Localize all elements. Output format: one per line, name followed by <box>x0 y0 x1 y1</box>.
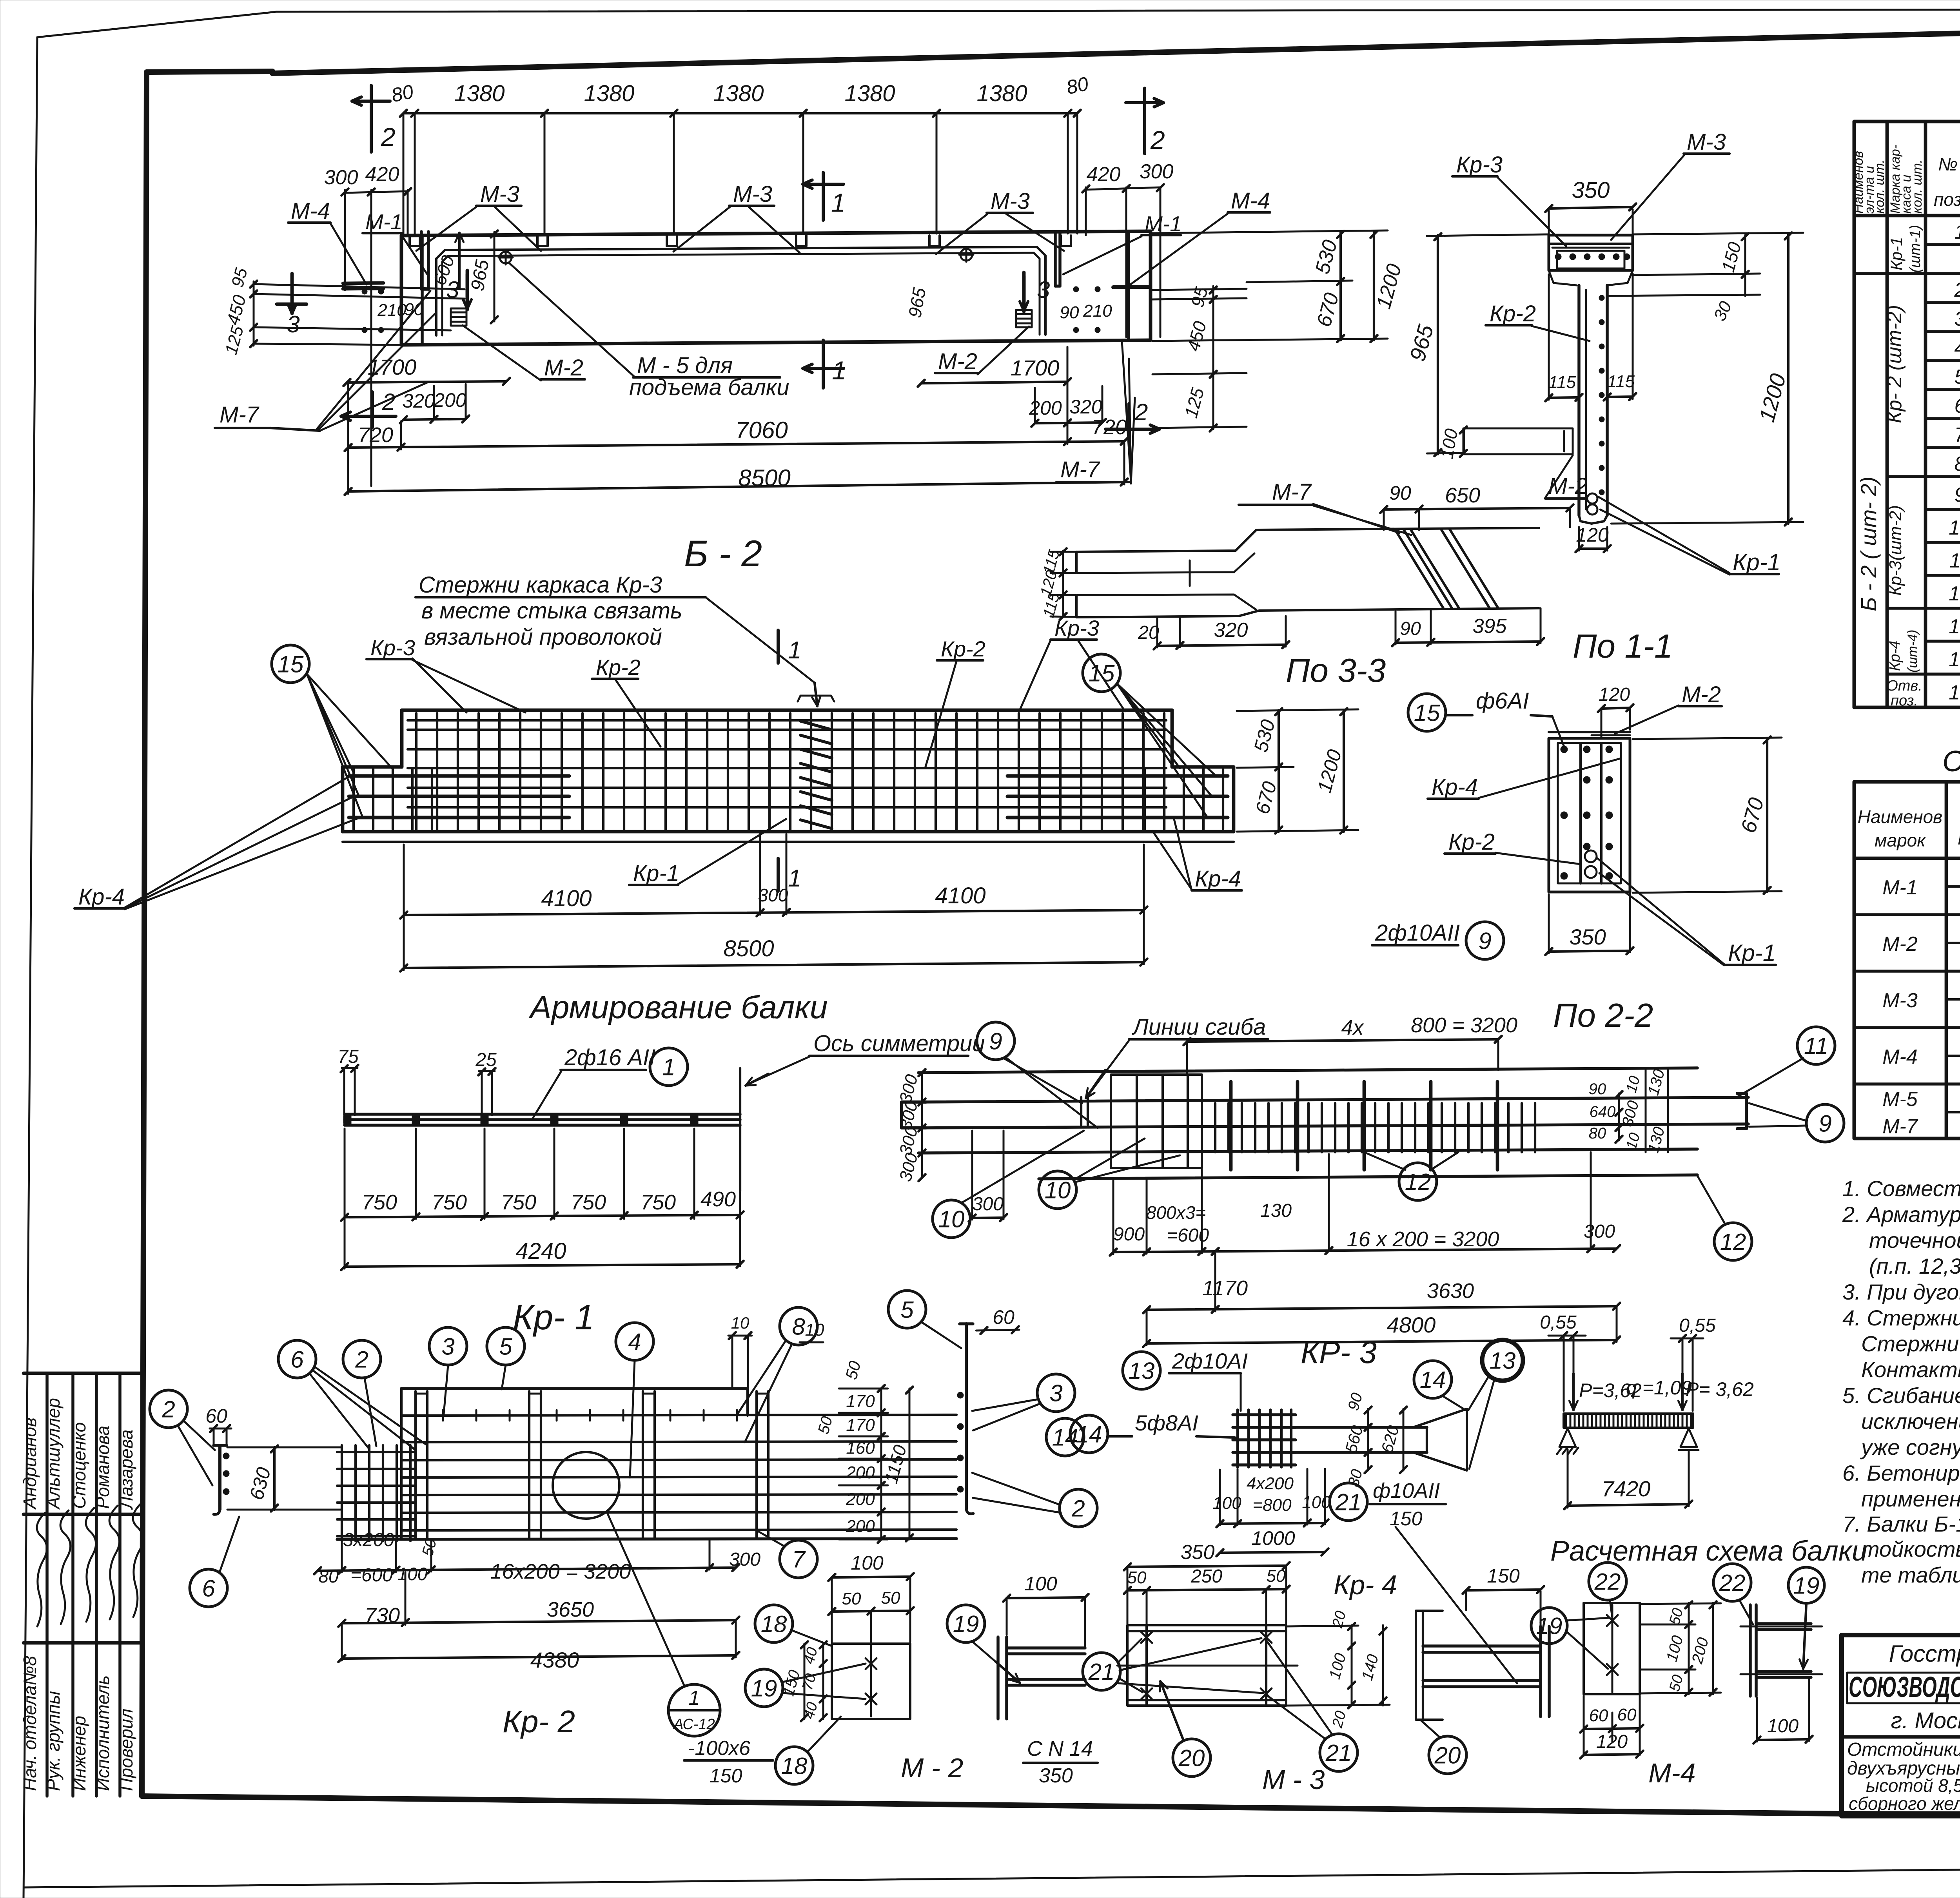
KR-1 dim 1150 rotated <box>881 1387 913 1541</box>
svg-text:исключением дужек для упор: исключением дужек для упора , которые пр… <box>1861 1409 1960 1434</box>
svg-text:80: 80 <box>1064 73 1090 98</box>
Kr-3 band left rotated 300 dims <box>896 1069 926 1184</box>
svg-text:14: 14 <box>1420 1367 1446 1393</box>
svg-text:13: 13 <box>1129 1358 1155 1384</box>
table 1 group label Kr-3 <box>1886 505 1905 596</box>
Po 2-2 stirrup inner rectangle <box>1558 743 1621 883</box>
svg-text:420: 420 <box>365 163 399 186</box>
Po 2-2 label Kr-2 with leader <box>1445 829 1581 864</box>
svg-text:22: 22 <box>1719 1570 1746 1596</box>
svg-text:1380: 1380 <box>976 81 1027 106</box>
svg-text:М-2: М-2 <box>544 355 583 381</box>
paper edge left line <box>24 37 37 1898</box>
svg-text:100: 100 <box>851 1552 884 1574</box>
svg-text:Контактной точечной сварко: Контактной точечной сваркой . <box>1861 1357 1960 1382</box>
M-4 balloon 22 right top with leader <box>1713 1564 1753 1624</box>
svg-text:80: 80 <box>1589 1125 1606 1142</box>
svg-text:200: 200 <box>1029 397 1062 419</box>
svg-text:7: 7 <box>1955 424 1960 446</box>
B-2 label Kr-2 right with leader <box>925 636 985 768</box>
svg-text:60: 60 <box>993 1306 1014 1328</box>
KR-1 left block grid <box>337 1445 415 1541</box>
svg-text:Инженер: Инженер <box>69 1716 89 1791</box>
svg-text:4380: 4380 <box>530 1648 579 1672</box>
Armirovanie dim 4240 <box>341 1216 744 1270</box>
svg-text:9: 9 <box>989 1028 1002 1055</box>
Kr-3 detail dim 1000 <box>1216 1527 1328 1556</box>
svg-text:Андрианов: Андрианов <box>20 1418 40 1510</box>
design scheme point load arrows <box>1569 1374 1686 1410</box>
right dims 530 670 1200 (rotated) <box>1152 230 1406 342</box>
svg-text:20: 20 <box>1178 1745 1205 1771</box>
dimension row 8500 <box>345 347 1128 495</box>
svg-text:4800: 4800 <box>1387 1312 1436 1337</box>
svg-text:М-3: М-3 <box>1687 129 1726 155</box>
M-1 plate strip left <box>421 232 428 289</box>
svg-text:5. Сгибание каркасов произв: 5. Сгибание каркасов производится после … <box>1842 1383 1960 1408</box>
Po 1-1 label M-3 with leader <box>1611 129 1730 240</box>
svg-text:АС-12: АС-12 <box>673 1716 715 1733</box>
M-5 hatch box left <box>451 308 466 326</box>
svg-text:3: 3 <box>1037 277 1050 303</box>
table 1 row poz 15 <box>1949 678 1960 704</box>
Po 1-1 dims 150 and 30 right <box>1607 233 1760 324</box>
svg-text:М-4: М-4 <box>1231 188 1270 214</box>
svg-text:Альтшуллер: Альтшуллер <box>43 1398 64 1510</box>
left 965 dim vertical <box>491 230 498 323</box>
svg-text:25: 25 <box>475 1050 497 1070</box>
label 200 320 bottom-right dims <box>1029 386 1106 427</box>
svg-text:18: 18 <box>781 1753 808 1779</box>
svg-text:80: 80 <box>318 1566 339 1586</box>
svg-text:1700: 1700 <box>368 355 417 379</box>
svg-text:90: 90 <box>1589 1080 1606 1098</box>
KR-1 balloon 7 with leader <box>757 1530 817 1578</box>
svg-text:Проверил: Проверил <box>116 1709 136 1791</box>
Kr-3 band mesh verticals <box>1215 1103 1535 1152</box>
svg-text:Кр-1: Кр-1 <box>633 861 679 886</box>
Po 1-1 label Kr-2 with leader <box>1486 301 1590 341</box>
svg-text:Отв.: Отв. <box>1886 678 1922 694</box>
Po 1-1 dim 965 left (rotated) <box>1405 233 1549 456</box>
svg-text:(п.п. 12,35 ; 12, 36).: (п.п. 12,35 ; 12, 36). <box>1869 1254 1960 1278</box>
Linii sgiba label with leader <box>1086 1014 1268 1098</box>
KR-1 balloon 2 right with fan <box>972 1473 1097 1527</box>
svg-text:3: 3 <box>287 311 299 337</box>
table 1 group label Kr-1 <box>1887 225 1924 273</box>
svg-text:Кр-1: Кр-1 <box>1733 549 1780 575</box>
svg-text:50: 50 <box>881 1588 900 1608</box>
M-4 plate left (double line) <box>343 283 383 289</box>
B-2 label Kr-3 left with leaders <box>367 635 525 712</box>
Po 1-1 web rebar dots <box>1599 295 1604 495</box>
svg-text:М-2: М-2 <box>938 349 977 374</box>
M-5 hatch box right <box>1016 310 1032 327</box>
Po 2-2 label Kr-1 with fan leaders <box>1597 858 1776 966</box>
svg-text:750: 750 <box>571 1191 606 1214</box>
svg-text:М-4: М-4 <box>1882 1046 1918 1068</box>
table 1 row poz 7 <box>1955 420 1960 446</box>
table 1 horizontal row lines <box>1854 216 1960 707</box>
svg-text:сборного железобетона: сборного железобетона <box>1849 1793 1960 1814</box>
svg-text:200: 200 <box>846 1463 875 1482</box>
svg-text:100: 100 <box>1302 1493 1331 1512</box>
design scheme dim 0,55 right <box>1671 1315 1716 1411</box>
Po 2-2 label 2phi10AII with balloon 9 <box>1372 920 1504 959</box>
svg-text:2. Арматурные каркасы изго: 2. Арматурные каркасы изготовлять при по… <box>1842 1202 1960 1227</box>
Kr-3 band dim row 1170 3630 <box>1143 1254 1620 1313</box>
svg-text:М-2: М-2 <box>1882 933 1918 955</box>
Po 2-2 dim 120 top <box>1598 684 1633 737</box>
svg-text:90: 90 <box>405 300 424 319</box>
svg-text:2ф10АI: 2ф10АI <box>1172 1349 1248 1373</box>
Armirovanie axis of symmetry line <box>739 1068 741 1191</box>
svg-text:Нач. отдела№8: Нач. отдела№8 <box>20 1656 40 1791</box>
svg-text:115: 115 <box>1607 372 1635 391</box>
svg-text:150: 150 <box>1487 1565 1520 1587</box>
svg-text:3. При дуговой сварке приме: 3. При дуговой сварке применять электрод… <box>1842 1280 1960 1304</box>
svg-text:60: 60 <box>205 1405 227 1427</box>
paper edge top line <box>276 9 1960 12</box>
svg-text:Б - 2 ( шт- 2): Б - 2 ( шт- 2) <box>1856 477 1881 611</box>
B-2 label Kr-4 left with fan leaders <box>74 776 358 910</box>
Kr-3 band heavy group bars <box>1231 1082 1497 1170</box>
section mark 1 top <box>803 172 846 220</box>
table 1 outer and vertical grid <box>1854 121 1960 707</box>
svg-text:точечной сварки в соответств: точечной сварки в соответствии с указани… <box>1869 1228 1960 1253</box>
table 1 rotated header col 1 <box>1851 151 1887 214</box>
svg-text:М-7: М-7 <box>1272 479 1312 505</box>
table 2 mark group М-1 <box>1882 876 1960 899</box>
KR-1 balloon 6 bottom with leader <box>190 1517 239 1607</box>
svg-text:2: 2 <box>382 389 395 415</box>
Po 2-2 dim 670 right (rotated) <box>1633 736 1782 894</box>
svg-text:1: 1 <box>831 188 846 217</box>
svg-text:ф10АII: ф10АII <box>1373 1479 1440 1503</box>
svg-text:75: 75 <box>338 1046 359 1067</box>
svg-text:7: 7 <box>792 1546 806 1573</box>
table 1 group label Otv poz <box>1886 678 1922 709</box>
M-4 balloon 19 far right with leader <box>1788 1567 1824 1669</box>
svg-text:18: 18 <box>761 1611 787 1637</box>
M-4 dim 100 right <box>1753 1679 1813 1744</box>
svg-text:4: 4 <box>628 1329 641 1355</box>
frame border top-left fold diagonal <box>147 71 272 72</box>
Po 3-3 dim 90 395 bottom right <box>1392 608 1544 646</box>
Po 1-1 flange rebar dots <box>1555 254 1630 260</box>
svg-text:5: 5 <box>1955 366 1960 388</box>
M-2 balloon 18 bottom with label -100x6/150 <box>684 1717 841 1787</box>
signatures (squiggles) <box>37 1503 143 1626</box>
design scheme right support (roller) <box>1679 1428 1699 1450</box>
KR-1 dim row 730 3650 <box>338 1572 739 1627</box>
signature table grid <box>24 1373 141 1796</box>
M-4 dims 60 60 bottom <box>1580 1696 1643 1756</box>
Po 2-2 rebar dots <box>1561 746 1613 879</box>
Po 3-3 mid tick <box>1189 560 1191 586</box>
KR-1 right spacing dims 170 170 160 200 200 200 <box>839 1385 888 1543</box>
Kr-3 band dim 300 left bottom <box>969 1131 1007 1222</box>
svg-text:720: 720 <box>358 423 393 447</box>
Kr-4 balloon 21 bottom right <box>1265 1639 1357 1771</box>
table 1 group label Kr-2 <box>1883 305 1906 423</box>
Po 2-2 label M-2 with leader <box>1615 682 1722 734</box>
svg-text:90: 90 <box>1400 618 1421 639</box>
svg-text:5ф8АI: 5ф8АI <box>1135 1410 1198 1435</box>
Kr-3 band dim row 900 600 130 16x200 300 <box>1110 1152 1620 1256</box>
B-2 right dim 1200 (rotated) <box>1237 708 1358 834</box>
svg-text:50: 50 <box>1267 1566 1286 1586</box>
table 2 header texts <box>1858 787 1960 854</box>
Po 1-1 label M-2 with leader <box>1545 455 1588 499</box>
svg-text:М-3: М-3 <box>991 189 1030 214</box>
svg-text:210: 210 <box>1083 301 1112 321</box>
table 1 row poz 2 <box>1954 275 1960 301</box>
svg-text:4100: 4100 <box>541 886 592 911</box>
Kr-3 band left hook <box>902 1102 926 1128</box>
Po 2-2 label Kr-4 with leader <box>1428 758 1621 800</box>
svg-text:1170: 1170 <box>1202 1276 1248 1300</box>
svg-text:1: 1 <box>662 1054 675 1080</box>
table 1 row poz 13 <box>1949 611 1960 638</box>
svg-text:11: 11 <box>1804 1033 1828 1059</box>
svg-text:Романова: Романова <box>93 1426 113 1509</box>
svg-text:100: 100 <box>1767 1716 1798 1737</box>
label 320 200 bottom-left dims <box>400 384 469 423</box>
B-2 cage vertical stirrups <box>416 713 1164 830</box>
Kr-4 balloon 20 bottom with leader <box>1160 1681 1210 1777</box>
Armirovanie dim row 750x5 490 <box>341 1187 744 1221</box>
svg-text:М-3: М-3 <box>733 181 772 207</box>
svg-text:200: 200 <box>846 1490 875 1509</box>
svg-text:130: 130 <box>1260 1200 1292 1221</box>
svg-text:Наименов: Наименов <box>1858 807 1942 827</box>
B-2 balloon 15 right with fan leaders <box>1083 654 1215 817</box>
small dots near beam ends <box>362 286 1100 333</box>
design scheme left support (pinned) <box>1557 1428 1578 1454</box>
frame border bottom <box>142 1796 1960 1816</box>
KR-1 balloon 3 with leader <box>429 1327 467 1414</box>
svg-text:14: 14 <box>1949 648 1960 671</box>
Armirovanie dim verticals <box>345 1129 740 1219</box>
Po 3-3 dim 90 650 top <box>1380 482 1573 530</box>
Po 1-1 Kr-1 bottom bars (two circles) <box>1587 493 1597 515</box>
Po 2-2 outline rectangle <box>1549 738 1630 892</box>
Kr-4 balloon 21 left with fan <box>1083 1638 1263 1693</box>
svg-text:22: 22 <box>1594 1569 1621 1595</box>
KR-1 leader to AC-12 balloon <box>607 1512 684 1685</box>
svg-text:395: 395 <box>1473 615 1507 638</box>
Po 3-3 left end caps <box>1075 552 1078 617</box>
KR-1 dim 10 bracket top <box>728 1314 752 1387</box>
label M-4 left with leader <box>288 198 367 285</box>
Po 1-1 M-2 plate side view rectangle <box>1464 428 1573 454</box>
table 1 row poz 10 <box>1949 513 1960 539</box>
Kr-3 band left step block <box>1111 1075 1202 1168</box>
svg-text:320: 320 <box>402 390 435 412</box>
M-2 dim 50 50 <box>828 1588 914 1642</box>
svg-text:120: 120 <box>1596 1731 1628 1752</box>
svg-text:7060: 7060 <box>735 417 788 443</box>
svg-text:1380: 1380 <box>844 81 895 106</box>
label M-7 left with fan leaders <box>215 291 435 431</box>
Kr-3 detail band to the right <box>1291 1427 1427 1452</box>
beam elevation top dimension row 80+5x1380+80 <box>400 110 1081 234</box>
svg-text:170: 170 <box>846 1416 875 1435</box>
KR-1 balloon 3 right with fan <box>972 1374 1075 1430</box>
svg-text:2: 2 <box>162 1396 175 1423</box>
B-2 label Kr-1 with leader <box>629 819 786 886</box>
svg-text:200: 200 <box>433 389 466 411</box>
table 2 header bottom line <box>1854 857 1960 860</box>
table 1 row poz 11 <box>1949 546 1960 572</box>
svg-text:Кр-4: Кр-4 <box>1432 774 1478 800</box>
svg-text:50: 50 <box>1127 1568 1147 1587</box>
svg-text:720: 720 <box>1092 415 1127 439</box>
svg-text:М - 3: М - 3 <box>1262 1764 1325 1795</box>
svg-text:тойкость бетона принимает: тойкость бетона принимается по таблице 4… <box>1861 1537 1960 1561</box>
Kr-4 dim 350 top <box>1124 1541 1290 1570</box>
svg-text:поз.: поз. <box>1891 692 1918 709</box>
B-2 dim 8500 <box>400 912 1147 972</box>
Po 1-1 web outline <box>1579 285 1607 524</box>
Po 3-3 label M-7 with leader <box>1239 479 1411 535</box>
svg-text:кол. шт.: кол. шт. <box>1910 160 1925 214</box>
M-2 dim 100 top <box>828 1552 914 1642</box>
M-4 left plate <box>1584 1603 1640 1694</box>
svg-text:Кр- 2: Кр- 2 <box>503 1704 575 1739</box>
Kr-4 body plate <box>1117 1625 1298 1706</box>
B-2 left end block bars <box>349 769 569 829</box>
left outboard dims 95 450 125 (rotated) <box>221 266 465 357</box>
KR-1 small tick marks on top chord <box>443 1410 737 1421</box>
M-4 balloon 22 top with leader <box>1589 1563 1626 1618</box>
svg-text:2: 2 <box>1954 279 1960 301</box>
KR-1 balloon 2 far left <box>150 1390 215 1485</box>
Kr-3 band balloon 11 right <box>1737 1027 1835 1097</box>
svg-text:Кр-2: Кр-2 <box>941 636 985 661</box>
Kr-3 band balloon 10 second <box>1039 1138 1180 1209</box>
M-2 left plate <box>832 1644 910 1719</box>
svg-text:6: 6 <box>202 1575 215 1602</box>
Armirovanie dim 75 <box>338 1046 359 1115</box>
svg-text:Кр-1: Кр-1 <box>1728 940 1776 966</box>
Kr-3 detail balloon 13 with label 2phi10AI <box>1123 1349 1248 1411</box>
svg-text:М-1: М-1 <box>365 210 403 234</box>
label M-3 with leaders (right) <box>936 189 1064 254</box>
Kr-3 band outline lines <box>918 1068 1748 1179</box>
svg-text:2: 2 <box>355 1347 368 1373</box>
KR-1 dim 630 rotated <box>227 1445 341 1512</box>
KR-1 balloon 14 right <box>1046 1418 1084 1456</box>
table 2 mark group М-4 <box>1882 1046 1960 1068</box>
Kr-3 detail rotated dims 90 560 30 620 <box>1341 1391 1407 1488</box>
KR-1 detail circle callout <box>553 1452 619 1519</box>
svg-text:в месте стыка связать: в месте стыка связать <box>421 598 682 624</box>
KR-1 balloon 8 with fan leaders <box>737 1307 817 1442</box>
design scheme dim 7420 <box>1564 1449 1692 1509</box>
Po 3-3 fork inner bottom line <box>1076 595 1256 610</box>
label 1700 left with dim <box>343 355 510 386</box>
svg-text:поз.: поз. <box>1958 829 1960 848</box>
Po 1-1 label Kr-1 with leader <box>1599 497 1780 575</box>
svg-text:2: 2 <box>1150 125 1165 154</box>
svg-text:50: 50 <box>842 1589 861 1608</box>
svg-text:Кр-3(шт-2): Кр-3(шт-2) <box>1886 505 1905 596</box>
svg-text:(шт-4): (шт-4) <box>1905 630 1920 673</box>
svg-text:М-4: М-4 <box>291 198 330 224</box>
svg-text:15: 15 <box>278 651 304 678</box>
svg-text:М-2: М-2 <box>1682 682 1721 707</box>
svg-text:730: 730 <box>365 1604 400 1627</box>
Kr-4 rotated dims 20 100 140 20 <box>1286 1609 1390 1730</box>
svg-text:Спецификация стали на ба: Спецификация стали на балку Б-2 <box>1942 745 1960 778</box>
svg-text:4240: 4240 <box>515 1238 566 1264</box>
M-2 dim 100 right top <box>1003 1573 1089 1646</box>
section mark 2 bottom-right <box>1105 399 1160 439</box>
Armirovanie dim 25 <box>475 1050 497 1115</box>
svg-text:90: 90 <box>1060 303 1079 322</box>
svg-text:750: 750 <box>362 1191 397 1214</box>
svg-text:Отстойники канализационные: Отстойники канализационные <box>1847 1739 1960 1760</box>
svg-text:800х3=: 800х3= <box>1146 1202 1206 1223</box>
paper edge top-left diagonal <box>37 12 276 37</box>
Po 3-3 left rotated dims 115 120 115 <box>1037 547 1076 620</box>
KR-1 stirrup verticals with hooks <box>416 1391 768 1538</box>
svg-text:1380: 1380 <box>584 81 634 106</box>
B-2 splice zone diagonals <box>798 696 834 828</box>
svg-text:М-7: М-7 <box>220 402 260 428</box>
svg-text:Кр-3: Кр-3 <box>370 635 415 660</box>
Kr-4 balloon 20 bottom right bracket <box>1421 1720 1466 1774</box>
svg-text:Р= 3,62: Р= 3,62 <box>1686 1378 1754 1400</box>
svg-text:14: 14 <box>1076 1421 1102 1448</box>
KR-1 dim 4380 <box>338 1622 739 1672</box>
svg-text:3650: 3650 <box>547 1598 594 1621</box>
svg-text:М-3: М-3 <box>1882 989 1918 1012</box>
svg-text:19: 19 <box>1536 1613 1563 1639</box>
M-2 balloon 19 top right with leader <box>947 1605 1020 1683</box>
svg-text:250: 250 <box>1191 1566 1222 1587</box>
Kr-3 detail tapered right block <box>1413 1409 1467 1470</box>
svg-text:4: 4 <box>1955 337 1960 359</box>
svg-text:750: 750 <box>641 1191 676 1214</box>
svg-text:750: 750 <box>432 1191 467 1214</box>
svg-text:21: 21 <box>1088 1659 1115 1685</box>
svg-text:350: 350 <box>1181 1541 1215 1564</box>
Kr-3 detail balloon 13 bold <box>1468 1340 1523 1469</box>
svg-text:80: 80 <box>389 80 415 106</box>
Kr-3 band right small dims 90 640 80 <box>1589 1080 1622 1143</box>
section mark 3 outer-left <box>277 274 307 337</box>
svg-text:15: 15 <box>1089 660 1115 687</box>
svg-text:900: 900 <box>1113 1224 1145 1245</box>
Kr-3 detail balloon 14 with label 5phi8AI <box>1070 1410 1239 1453</box>
svg-text:марок: марок <box>1875 830 1926 850</box>
svg-text:Кр-2: Кр-2 <box>1490 301 1536 326</box>
svg-text:100: 100 <box>1024 1573 1057 1595</box>
Kr-4 dim 50 250 50 <box>1124 1566 1290 1626</box>
svg-text:2: 2 <box>1134 399 1148 425</box>
beam inner flange rectangle <box>436 247 1045 335</box>
svg-text:1: 1 <box>788 637 801 664</box>
svg-text:300: 300 <box>758 885 788 905</box>
label M-2 right with leader <box>935 326 1029 374</box>
svg-text:2ф10АII: 2ф10АII <box>1375 920 1460 946</box>
B-2 right end block bars <box>1007 769 1228 829</box>
Kr-3 band fold line marks <box>1081 1097 1088 1125</box>
svg-text:Б - 2: Б - 2 <box>684 533 762 575</box>
